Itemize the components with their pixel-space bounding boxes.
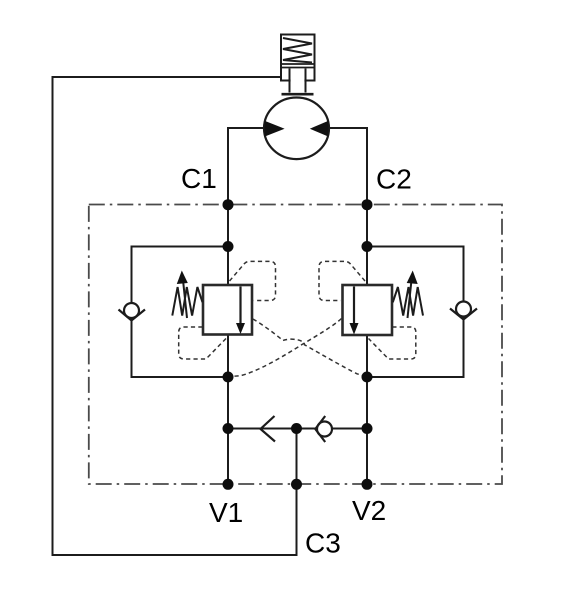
relief valve RV1 spring (172, 287, 202, 316)
relief valve RV2 spring-chamber hook lower (369, 327, 416, 359)
relief valve RV1 body (203, 285, 252, 335)
wire motor left horizontal (228, 127, 266, 129)
relief valve RV1 adjust arrow (183, 280, 187, 318)
relief valve RV1 flow arrow (239, 287, 241, 325)
node V2 (362, 479, 373, 490)
wire outer loop (C3 to brake) : top horizontal (53, 76, 282, 78)
relief valve RV1 pilot hook upper (230, 261, 276, 300)
node V1 (223, 479, 234, 490)
brake piston plate (282, 64, 315, 68)
check valve CV3 (bottom, to C3) (317, 422, 332, 437)
wire outer loop : bottom horizontal (53, 554, 297, 556)
pilot crossover line A (left valve outlet to right line) with hop (253, 319, 366, 377)
brake piston stem (291, 69, 305, 93)
wire bottom internal line (228, 428, 367, 430)
wire C3 drop (296, 429, 298, 557)
wire right main vertical C2-V2 (366, 127, 368, 484)
svg-text:C2: C2 (376, 164, 412, 195)
hydraulic motor M circle (264, 98, 329, 160)
check valve CV2 (right) (456, 302, 471, 317)
svg-text:C1: C1 (181, 163, 217, 194)
wire left bypass branch (132, 247, 229, 378)
wire outer loop : left vertical (52, 76, 54, 556)
motor arrow left (265, 121, 285, 137)
relief valve RV1 spring-chamber hook lower (179, 327, 226, 359)
pilot crossover line B (right valve outlet to left line) (230, 319, 342, 377)
relief valve RV2 body (343, 285, 393, 335)
node C1 junction (223, 199, 234, 210)
node left branch bottom (223, 372, 234, 383)
brake cylinder body (281, 35, 315, 81)
motor arrow right (310, 121, 329, 137)
node bottom line right (362, 423, 373, 434)
node C2 junction (362, 199, 373, 210)
brake stem foot (282, 93, 314, 96)
node right branch top (362, 241, 373, 252)
node left branch top (223, 241, 234, 252)
node right branch bottom (362, 372, 373, 383)
svg-text:V1: V1 (209, 497, 243, 528)
wire left main vertical C1-V1 (227, 127, 229, 484)
relief valve RV2 adjust arrow (408, 280, 412, 318)
check valve CV1 (left) (124, 303, 139, 318)
svg-text:V2: V2 (352, 495, 386, 526)
enclosure dash-dot boundary (89, 205, 502, 485)
node bottom line left (223, 423, 234, 434)
svg-text:C3: C3 (305, 528, 341, 559)
shuttle seat chevron (bottom line) (261, 416, 276, 442)
wire right bypass branch (367, 247, 464, 378)
node C3 tap (291, 479, 302, 490)
relief valve RV2 flow arrow (353, 287, 355, 325)
wire motor right horizontal (328, 127, 367, 129)
relief valve RV2 pilot hook upper (319, 261, 365, 300)
node bottom line middle (291, 423, 302, 434)
relief valve RV2 spring (393, 287, 423, 316)
brake spring (283, 38, 312, 63)
